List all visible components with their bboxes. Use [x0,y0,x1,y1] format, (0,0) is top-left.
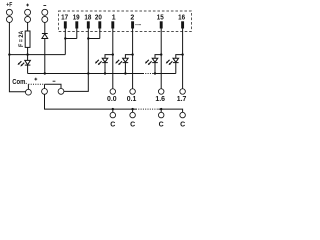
ellipsis pins 3..14 [135,23,141,26]
minus bus dotted continuation [143,73,153,75]
C bus dotted continuation [136,108,158,110]
LED 1.6 [152,58,158,73]
label - over jumper [53,80,56,82]
svg-text:18: 18 [84,15,91,22]
terminal + pair [25,9,31,15]
junction LED branch 0.1 [131,53,133,55]
channel terminal 0.1 [130,89,136,95]
LED branch 1.6 [155,55,161,59]
channel 0.0 input wire from pin 1 [112,29,114,89]
svg-text:+F: +F [6,1,12,8]
terminal +F pair [6,9,12,15]
wire joining pins 18 and 20 [88,38,100,40]
C bus right section [158,109,182,112]
junction C 0.0 [112,108,114,110]
channel terminal 1.7 [180,89,186,95]
power LED (under fuse) [25,55,31,74]
wire 18/20 down to Com minus [64,39,88,92]
LED 0.1 arrows [115,60,122,65]
junction LED branch 1.7 [181,53,183,55]
+F bus horizontal [9,54,65,56]
wire pin 19 down [76,29,78,39]
stub Com + terminal to jumper [44,84,46,88]
junction pins 18/20 [87,37,89,39]
wire Com + terminal down to C bus [45,94,113,109]
junction LED branch 0.0 [112,53,114,55]
svg-text:1.7: 1.7 [177,96,187,103]
LED 1.7 arrows [166,60,173,65]
label + (fused plus terminal) [26,4,29,7]
label - (minus terminal) [43,5,46,7]
wire - terminal down to diode [44,22,46,33]
svg-text:15: 15 [157,15,164,22]
pin 18 contact [87,21,90,28]
junction fuse wire on bus [26,53,28,55]
channel 0.1 input wire from pin 2 [132,29,134,89]
LED 0.1 [123,58,129,73]
Com terminal +F feed [26,89,32,95]
power LED arrows [18,61,25,66]
diode V1 (reverse protection, cathode up) [42,34,48,39]
svg-text:1.6: 1.6 [155,96,165,103]
LED 1.6 arrows [145,60,152,65]
wire 17/19 down to +F bus corner [64,39,66,55]
stub C 0.0 [112,109,114,112]
wire diode down across +F bus to minus bus [44,39,46,74]
svg-text:0.0: 0.0 [107,96,117,103]
pin 20 contact [98,21,101,28]
svg-text:F = 2A: F = 2A [18,31,25,47]
svg-text:C: C [130,121,135,128]
pin 16 contact [181,21,184,28]
C bus solid left section [113,108,136,110]
wire + terminal down to fuse [27,22,29,31]
junction LED branch 1.6 [160,53,162,55]
LED 0.0 [102,58,108,73]
junction LED 0.1 on minus bus [124,72,126,74]
svg-text:19: 19 [73,15,80,22]
channel 1.6 input wire from pin 15 [160,29,162,89]
wire pin 18 down [87,29,89,39]
svg-text:C: C [110,121,115,128]
C terminal 1.7 [180,112,186,118]
junction +F wire on +F bus [8,53,10,55]
junction LED 0.0 on minus bus [104,72,106,74]
terminal - pair [42,9,48,15]
channel terminal 1.6 [158,89,164,95]
svg-text:2: 2 [130,15,134,22]
wire pin 17 down [64,29,66,39]
junction C 0.1 [131,108,133,110]
channel terminal 0.0 [110,89,116,95]
pin 2 contact [131,21,134,28]
svg-text:16: 16 [178,15,185,22]
junction LED 1.6 on minus bus [154,72,156,74]
wire fuse to +F bus [27,47,29,54]
pin 17 contact [64,21,67,28]
svg-text:20: 20 [95,15,102,22]
junction diode wire on minus bus [44,72,46,74]
channel 1.7 input wire from pin 16 [182,29,184,89]
C terminal 0.0 [110,112,116,118]
svg-text:C: C [180,121,185,128]
dotted jumper Com to plus [28,83,44,85]
C terminal 1.6 [158,112,164,118]
stub Com +F terminal to jumper [27,84,29,89]
LED branch 0.1 [125,55,132,59]
minus bus right section [153,73,176,75]
LED branch 1.7 [176,55,183,59]
stub C 1.6 [160,109,162,112]
LED branch 0.0 [105,55,113,59]
Com terminal + [42,89,48,95]
svg-text:17: 17 [61,15,68,22]
C terminal 0.1 [130,112,136,118]
fuse F=2A [25,31,30,47]
LED 1.7 [173,58,179,73]
pin 19 contact [75,21,78,28]
Com terminal - [58,89,64,95]
wire joining pins 17 and 19 [65,38,77,40]
wire +F terminal down to Com feed terminal [9,22,25,91]
junction C 1.6 [160,108,162,110]
jumper plus to minus terminal [45,84,62,88]
junction pins 17/19 [64,37,66,39]
junction 18/20 wire on minus bus [87,72,89,74]
label + over jumper [34,78,37,81]
pin 1 contact [111,21,114,28]
pin 15 contact [160,21,163,28]
minus bus from power LED to dotted break [28,73,143,75]
wire pin 20 down [99,29,101,39]
svg-text:1: 1 [112,15,116,22]
stub C 0.1 [132,109,134,112]
LED 0.0 arrows [95,60,102,65]
svg-text:Com.: Com. [12,77,27,86]
svg-text:C: C [159,121,164,128]
svg-text:0.1: 0.1 [127,96,137,103]
connector dashed box [58,11,191,31]
